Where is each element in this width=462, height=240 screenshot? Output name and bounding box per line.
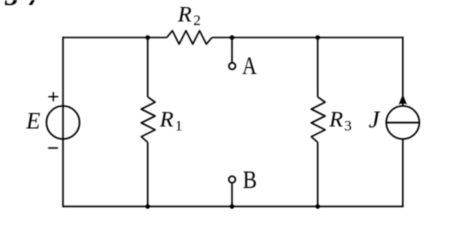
svg-text:R: R <box>159 107 174 132</box>
node dot top A <box>230 35 235 40</box>
wire J branch upper <box>402 37 404 106</box>
plus sign <box>48 96 58 98</box>
wire top-right segment <box>212 37 403 39</box>
wire bottom <box>63 205 403 207</box>
resistor R3 <box>311 97 325 142</box>
current source arrowhead <box>399 94 407 104</box>
minus sign <box>48 147 58 149</box>
svg-text:B: B <box>243 167 257 194</box>
terminal A circle <box>229 63 236 70</box>
svg-text:R: R <box>177 1 192 26</box>
current source J circle <box>386 106 419 139</box>
node dot bottom B <box>230 204 235 209</box>
node dot bottom R1 <box>145 204 150 209</box>
svg-text:37: 37 <box>4 0 50 11</box>
svg-text:A: A <box>242 53 257 80</box>
wire R1 branch upper <box>147 38 149 97</box>
node dot top R3 <box>315 35 320 40</box>
voltage source E circle <box>46 106 79 139</box>
resistor R2 <box>167 31 212 44</box>
wire R3 branch upper <box>317 38 319 97</box>
node dot bottom R3 <box>315 204 320 209</box>
wire stub terminal B <box>231 183 233 206</box>
wire top-left segment <box>63 37 167 39</box>
svg-text:2: 2 <box>193 13 201 29</box>
current source chord <box>386 122 419 124</box>
svg-text:1: 1 <box>175 119 183 135</box>
node dot top R1 <box>145 35 150 40</box>
wire R3 branch lower <box>317 142 319 206</box>
svg-text:E: E <box>25 109 40 134</box>
wire left branch <box>62 37 64 208</box>
wire J branch lower <box>402 139 404 207</box>
svg-text:J: J <box>369 107 381 134</box>
resistor R1 <box>141 97 155 142</box>
terminal B circle <box>229 176 236 183</box>
wire R1 branch lower <box>147 142 149 206</box>
wire stub terminal A <box>231 38 233 63</box>
svg-text:3: 3 <box>344 119 352 135</box>
svg-text:R: R <box>328 107 343 132</box>
